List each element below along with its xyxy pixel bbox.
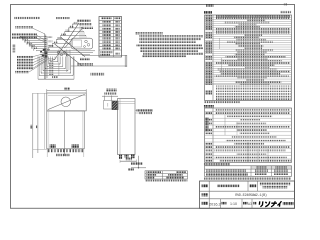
svg-text:2016.2: 2016.2 <box>209 202 221 206</box>
svg-text:A3: A3 <box>248 202 252 206</box>
svg-text:RVD-E2405AW2-1(B): RVD-E2405AW2-1(B) <box>235 193 267 198</box>
svg-text:1:10: 1:10 <box>230 202 237 206</box>
